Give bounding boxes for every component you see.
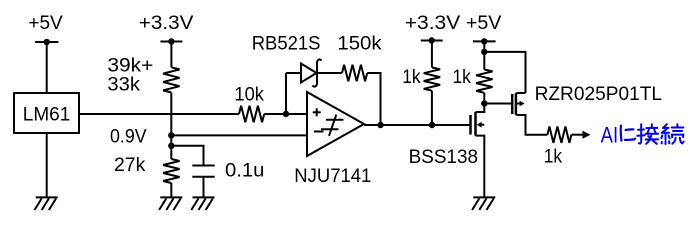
label 39k+ (107, 55, 153, 77)
wire feedback vertical up (285, 73, 287, 114)
power +5V left label (28, 12, 62, 34)
wire op-amp output (364, 124, 471, 126)
label 150k (337, 33, 381, 55)
wire 10k to plus input (264, 113, 307, 115)
label 1k output (544, 146, 563, 168)
wire +5V branch to pmos source (484, 52, 525, 93)
svg-text:NJU7141: NJU7141 (294, 165, 371, 187)
node dot +5V branch (481, 49, 487, 55)
wire +3.3V right to 1k (431, 41, 433, 68)
wire feedback to diode (286, 72, 301, 74)
wire +3.3V to R 39k+33k (170, 42, 172, 68)
wire 1k to drain node (483, 93, 485, 104)
wire +5V to LM61 top (46, 42, 48, 93)
svg-text:+5V: +5V (28, 12, 62, 34)
capacitor C 0.1u bottom plate (192, 176, 214, 178)
sensor U2 LM61 box (14, 93, 79, 133)
wire cap branch (171, 146, 203, 166)
wire 1k to arrow (571, 134, 583, 136)
resistor R 1k pullup 3.3V (424, 67, 440, 90)
label 1k right (453, 66, 472, 88)
svg-text:1k: 1k (453, 66, 472, 88)
resistor R 1k output (547, 127, 571, 143)
svg-text:+3.3V: +3.3V (405, 12, 460, 34)
node dot output pullup (429, 122, 435, 128)
svg-text:1k: 1k (402, 66, 421, 88)
arrow to AI (583, 131, 591, 139)
svg-text:BSS138: BSS138 (409, 146, 478, 168)
transistor Q1 BSS138 gate bar (469, 115, 472, 135)
label RB521S (252, 33, 321, 55)
resistor R 1k pullup 5V (476, 70, 492, 93)
ground under cap (191, 197, 214, 210)
svg-text:RZR025P01TL: RZR025P01TL (535, 83, 663, 105)
svg-text:27k: 27k (114, 154, 146, 176)
resistor R 39k+33k (163, 67, 179, 92)
label AI connection (blue) (601, 123, 619, 148)
wire cap to ground (203, 177, 205, 198)
diode D1 RB521S schottky (301, 59, 322, 86)
power +5V left rail bar (35, 41, 58, 43)
capacitor C 0.1u top plate (192, 165, 214, 167)
transistor Q2 RZR025P01TL gate bar (511, 94, 514, 114)
transistor Q2 source lead (516, 92, 525, 94)
wire LM61 bottom to ground (46, 133, 48, 197)
wire 150k to output node (367, 73, 380, 125)
svg-text:AI: AI (601, 123, 619, 148)
svg-text:LM61: LM61 (23, 104, 71, 126)
node dot drain (481, 100, 487, 106)
svg-text:RB521S: RB521S (252, 33, 321, 55)
wire 27k to ground (170, 183, 172, 197)
svg-text:+5V: +5V (466, 12, 502, 34)
wire minus input (171, 134, 307, 136)
wire drain node to pmos gate (484, 103, 511, 105)
kanji setsu (blue) (637, 124, 658, 144)
label 0.9V (110, 126, 147, 148)
node dot +3.3V right (429, 37, 435, 43)
power +5V right rail bar (473, 40, 496, 42)
label 27k (114, 154, 146, 176)
kanji ni (blue) (621, 126, 635, 141)
power +3.3V mid rail bar (160, 41, 182, 43)
power +3.3V mid label (139, 12, 194, 34)
node dot 0.9V to minus input (168, 132, 174, 138)
wire 1k to output wire (431, 91, 433, 125)
power +3.3V right rail bar (421, 40, 443, 42)
resistor R 10k (239, 106, 264, 122)
resistor R 150k (342, 65, 367, 81)
node dot +5V left (44, 39, 50, 45)
ground under LM61 (35, 197, 58, 210)
svg-text:0.1u: 0.1u (225, 160, 264, 182)
power +3.3V right label (405, 12, 460, 34)
kanji zoku (blue) (661, 124, 683, 144)
node dot +5V right (481, 38, 487, 44)
svg-text:10k: 10k (234, 84, 264, 106)
label RZR025P01TL (535, 83, 663, 105)
wire diode to 150k (317, 72, 342, 74)
op-amp minus sign (314, 131, 324, 133)
transistor Q2 body arrow (516, 101, 524, 107)
node dot output feedback (377, 122, 383, 128)
transistor Q2 channel bar (515, 93, 518, 115)
op-amp plus sign (313, 108, 321, 116)
label LM61 (23, 104, 71, 126)
node dot +3.3V mid (168, 38, 174, 44)
svg-text:+3.3V: +3.3V (139, 12, 194, 34)
ground under 27k (159, 197, 182, 210)
svg-text:33k: 33k (107, 74, 140, 96)
power +5V right label (466, 12, 502, 34)
label 33k (107, 74, 140, 96)
svg-text:150k: 150k (337, 33, 381, 55)
wire LM61 output to 10k (79, 113, 239, 115)
ground under BSS138 (472, 197, 495, 210)
node dot cap branch (168, 143, 174, 149)
node dot plus input feedback (283, 111, 289, 117)
op-amp U1 NJU7141 triangle (307, 92, 364, 156)
wire divider vertical (170, 93, 172, 160)
svg-text:1k: 1k (544, 146, 563, 168)
label 1k left (402, 66, 421, 88)
op-amp hysteresis symbol (321, 115, 344, 136)
label BSS138 (409, 146, 478, 168)
wire +5V down (483, 41, 485, 69)
transistor Q2 drain lead (516, 115, 547, 135)
transistor Q1 source lead to ground (476, 136, 485, 198)
label NJU7141 (294, 165, 371, 187)
label 0.1u (225, 160, 264, 182)
transistor Q1 drain lead (476, 104, 485, 113)
label 10k (234, 84, 264, 106)
svg-text:0.9V: 0.9V (110, 126, 147, 148)
transistor Q1 body arrow (477, 122, 485, 128)
transistor Q1 channel bar (474, 112, 477, 136)
resistor R 27k (163, 159, 179, 183)
